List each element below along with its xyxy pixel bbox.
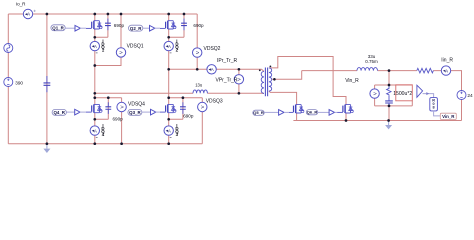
svg-text:A: A: [27, 12, 30, 17]
wire Q2 cap loop: [169, 14, 184, 37]
label 690p C3: [183, 114, 194, 119]
label IDQ2: [175, 39, 179, 53]
source V3 dc 24: [457, 91, 466, 100]
wire tag to driver Q3: [142, 111, 151, 113]
resistor output series: [417, 68, 434, 73]
transformer core: [265, 68, 267, 97]
gate driver Q3: [151, 109, 156, 115]
svg-text:VDSQ4: VDSQ4: [128, 101, 145, 107]
wire center tap to output: [272, 71, 302, 80]
svg-text:VDSQ2: VDSQ2: [204, 46, 221, 52]
svg-text:0.75m: 0.75m: [365, 59, 378, 64]
mosfet Q4: [86, 104, 102, 112]
capacitor C2 690p: [181, 19, 187, 31]
wire output branch to gnd: [388, 106, 390, 121]
voltmeter VDSQ3: [198, 102, 207, 111]
wire Q4 source: [94, 113, 96, 144]
label VDSQ3: [206, 98, 223, 104]
wire VPr voltmeter stems: [238, 69, 240, 93]
voltmeter VDSQ4: [117, 102, 126, 111]
wire driver to gate Q2: [155, 27, 161, 29]
wire output return bus: [293, 120, 461, 122]
capacitor C4 690p: [105, 102, 111, 114]
capacitor C1 690p: [105, 19, 111, 31]
label 13u: [195, 83, 203, 88]
svg-text:A: A: [94, 128, 97, 133]
svg-text:VDSQ1: VDSQ1: [127, 44, 144, 50]
wire driver to gate Q6: [335, 111, 338, 113]
node center tap: [273, 78, 276, 81]
wire Q1 cap loop: [95, 14, 108, 37]
wire Q3 cap loop: [169, 98, 183, 120]
label Iin_R: [441, 58, 453, 64]
svg-text:690p: 690p: [114, 23, 125, 28]
wire Q1 drain: [94, 14, 96, 21]
resistor output cap esr: [387, 85, 391, 96]
svg-text:A: A: [168, 44, 171, 49]
svg-text:A: A: [211, 67, 214, 72]
svg-text:Q3_R: Q3_R: [129, 110, 141, 115]
label IDQ3: [175, 123, 179, 137]
block R08: [430, 98, 438, 111]
svg-text:13u: 13u: [195, 83, 203, 88]
wire Q3 source: [168, 113, 170, 144]
svg-text:Q1_R: Q1_R: [52, 25, 64, 30]
tag Q3_R: [128, 109, 142, 115]
source V1 ac: [4, 44, 13, 53]
wire block to tag: [434, 111, 441, 116]
wire tag to driver Q4: [66, 111, 74, 113]
ammeter IPr_Tr_R: [207, 65, 216, 74]
label Io_R: [16, 2, 26, 7]
tag Q6_R: [306, 110, 317, 115]
svg-text:Q5_R: Q5_R: [253, 110, 264, 115]
polarity mark Io: [34, 10, 36, 12]
wire driver to gate Q4: [80, 111, 86, 113]
wire VDSQ3 stems: [169, 98, 203, 144]
label IDQ4: [101, 123, 105, 137]
ground output side: [385, 121, 392, 130]
svg-text:8: 8: [433, 105, 435, 109]
tag Vin_R: [440, 113, 456, 119]
label 0.75m: [365, 59, 378, 64]
wire driver to gate Q1: [80, 27, 86, 29]
label 24: [467, 93, 473, 99]
label 390: [15, 81, 23, 86]
signal arrowhead: [426, 92, 429, 95]
wire output branch drop: [388, 71, 390, 85]
wire tag to driver Q6: [318, 111, 329, 113]
svg-text:Q6_R: Q6_R: [307, 110, 318, 115]
wire Vout meter stems: [374, 85, 376, 106]
svg-text:390: 390: [15, 81, 23, 86]
wire output branch bottom: [375, 101, 413, 106]
wire top dc bus: [8, 13, 197, 15]
gate driver Q6: [329, 110, 334, 116]
label IPr_Tr_R: [217, 58, 237, 64]
label 690p C2: [193, 23, 204, 28]
inductor 33u: [357, 68, 378, 71]
wire VDSQ4 stems: [95, 98, 122, 144]
label VDSQ1: [127, 44, 144, 50]
wire node B to primary top: [169, 69, 264, 71]
svg-text:VPr_Tr_R: VPr_Tr_R: [216, 77, 238, 83]
svg-text:Vin_R: Vin_R: [345, 78, 359, 84]
wire Q2 source to node B: [168, 29, 170, 98]
capacitor output 1500u: [385, 96, 393, 106]
transformer secondary winding: [269, 68, 272, 91]
label 1500u*2: [393, 91, 412, 97]
wire 24V source bottom: [461, 100, 463, 121]
voltmeter VDSQ2: [193, 48, 202, 57]
svg-text:Vin_R: Vin_R: [442, 114, 455, 119]
tag Q2_R: [129, 25, 143, 31]
wire Q2 drain: [168, 14, 170, 21]
wire tag to driver Q1: [65, 27, 75, 29]
svg-text:VDSQ3: VDSQ3: [206, 98, 223, 104]
ground dc side: [43, 144, 50, 153]
label 690p C4: [113, 116, 124, 121]
wire driver to gate Q3: [156, 111, 161, 113]
voltmeter VDSQ1: [116, 48, 125, 57]
mosfet Q3: [160, 104, 176, 112]
gate driver Q5: [279, 110, 284, 116]
probe triangle Vin: [417, 85, 423, 97]
wire driver to gate Q5: [284, 111, 289, 113]
wire secondary top to Q6: [269, 57, 346, 106]
tag Q1_R: [51, 25, 65, 31]
wire bottom dc return bus: [8, 143, 202, 145]
svg-text:Q2_R: Q2_R: [130, 26, 142, 31]
wire Q6 source: [345, 113, 347, 121]
mosfet Q1: [86, 21, 102, 29]
gate driver Q2: [150, 25, 155, 31]
voltmeter Vin_R: [370, 89, 379, 98]
svg-text:A: A: [168, 128, 171, 133]
mosfet Q5: [289, 105, 304, 113]
load box: [396, 85, 413, 101]
ammeter Io_R: [23, 9, 32, 18]
wire output inductor line: [302, 71, 462, 91]
gate driver Q1: [75, 25, 80, 31]
svg-text:690p: 690p: [113, 116, 124, 121]
meter minus ticks: [96, 53, 172, 137]
wire Q3 drain: [168, 98, 170, 105]
transformer primary winding: [261, 71, 264, 93]
wire probe to block: [423, 94, 434, 98]
svg-text:Q4_R: Q4_R: [54, 110, 66, 115]
mosfet Q6: [337, 105, 353, 113]
wire Q5 source: [296, 113, 298, 121]
wire VDSQ1 stems: [95, 14, 121, 66]
voltmeter VPr_Tr_R: [234, 75, 243, 84]
label IDQ1: [101, 39, 105, 53]
label 690p C1: [114, 23, 125, 28]
ammeter IDQ4: [90, 126, 99, 135]
wire Q4 cap loop: [95, 98, 109, 120]
wire tag to driver Q5: [264, 111, 278, 113]
svg-text:690p: 690p: [193, 23, 204, 28]
wire Q1 source to node A: [94, 29, 96, 98]
wire tag to driver Q2: [143, 27, 150, 29]
inductor 13u: [193, 90, 207, 93]
svg-text:A: A: [445, 68, 448, 73]
ammeter Iin_R: [441, 66, 450, 75]
wire secondary bottom to Q5: [269, 91, 297, 105]
capacitor dc-link: [44, 76, 51, 92]
label Vin_R meter name: [345, 78, 359, 84]
svg-text:24: 24: [467, 93, 473, 99]
label 33u: [368, 54, 376, 59]
label VDSQ4: [128, 101, 145, 107]
wire VDSQ2 stems: [196, 14, 198, 69]
svg-text:690p: 690p: [183, 114, 194, 119]
svg-text:A: A: [94, 44, 97, 49]
ammeter IDQ2: [164, 41, 173, 50]
tag Q5_R: [253, 110, 264, 115]
wire Q4 drain: [94, 98, 96, 105]
mosfet Q2: [160, 21, 176, 29]
source V2 dc 390: [4, 78, 13, 87]
transformer polarity dots: [259, 66, 271, 72]
ammeter IDQ3: [164, 126, 173, 135]
wire node A to primary bottom: [95, 92, 264, 94]
tag Q4_R: [52, 109, 66, 115]
label VPr_Tr_R: [216, 77, 238, 83]
svg-text:Io_R: Io_R: [16, 2, 26, 7]
svg-text:Iin_R: Iin_R: [441, 58, 453, 64]
wire dc-link branch: [46, 14, 48, 144]
wire left source branch: [7, 14, 9, 144]
capacitor C3 690p: [180, 102, 186, 114]
label VDSQ2: [204, 46, 221, 52]
svg-text:IPr_Tr_R: IPr_Tr_R: [217, 58, 237, 64]
gate driver Q4: [75, 109, 80, 115]
wire output branch top: [375, 84, 413, 86]
ammeter IDQ1: [90, 41, 99, 50]
